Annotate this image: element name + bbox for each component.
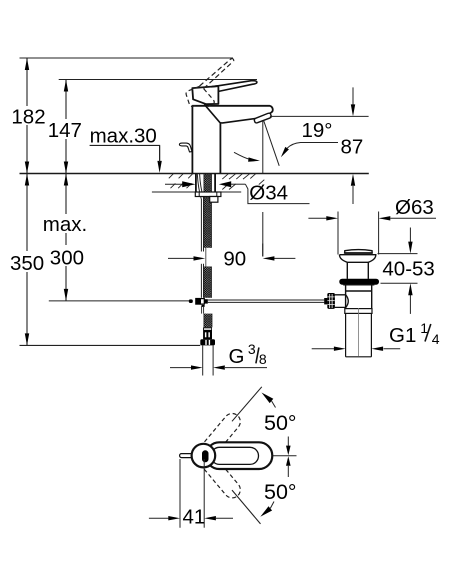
G3/8 threaded pipe xyxy=(202,345,204,375)
arrow 147 up xyxy=(64,80,68,92)
drain O-ring xyxy=(339,279,379,285)
svg-text:182: 182 xyxy=(11,106,45,129)
leader max.30 underline xyxy=(90,145,160,162)
pivot pin xyxy=(202,450,209,462)
wire: extension line top (182) xyxy=(20,57,234,59)
wire: 350 bottom extension line xyxy=(20,344,201,346)
wire: deck bottom line xyxy=(152,191,241,193)
dimension 350 line xyxy=(26,174,28,346)
dimension max300 line xyxy=(65,174,67,301)
svg-text:max.30: max.30 xyxy=(90,125,157,148)
svg-text:19°: 19° xyxy=(302,119,333,142)
arrow max300 up xyxy=(64,174,68,186)
faucet body right edge xyxy=(219,122,221,173)
drain: Ø63 extension lines xyxy=(337,212,339,255)
swivel arc arrow xyxy=(234,152,250,159)
wire: deck top line xyxy=(20,173,369,175)
knurled knob xyxy=(324,293,335,309)
label 182 xyxy=(9,106,44,125)
dashed raised handle base xyxy=(186,86,214,106)
drain body xyxy=(343,285,374,309)
dimension Ø34 leader xyxy=(165,181,310,203)
faucet body left edge xyxy=(191,105,193,173)
svg-text:Ø63: Ø63 xyxy=(395,196,434,219)
svg-text:350: 350 xyxy=(10,252,44,275)
50 upper arc arrows xyxy=(262,393,274,404)
arrow max.30 down xyxy=(157,161,161,173)
arrow 147 down xyxy=(64,162,68,174)
stream angled line 19deg xyxy=(264,121,279,166)
svg-text:87: 87 xyxy=(341,136,364,159)
arrow 182 down xyxy=(25,162,29,174)
dimension 147 line xyxy=(65,80,67,174)
crimp sleeve xyxy=(203,327,212,339)
drain flange xyxy=(339,255,375,279)
label 350 xyxy=(7,251,44,272)
dashed swung handle lower xyxy=(200,454,244,501)
svg-text:300: 300 xyxy=(50,247,84,270)
deck hatch left xyxy=(169,173,193,188)
svg-text:Ø34: Ø34 xyxy=(249,182,288,205)
dashed swung handle upper xyxy=(200,410,244,457)
faucet top / spout top edge xyxy=(192,106,273,114)
spout underside diagonal xyxy=(204,104,255,123)
top view pivot circle xyxy=(192,444,216,468)
svg-text:41: 41 xyxy=(183,506,206,529)
cross fitting on rod xyxy=(189,298,208,307)
braided hose band 3 xyxy=(204,314,212,328)
drain pop-up cap xyxy=(344,250,372,255)
dimension G3/8 xyxy=(170,341,267,370)
svg-text:50°: 50° xyxy=(264,411,297,435)
horizontal pull rod to drain xyxy=(208,299,325,301)
svg-text:147: 147 xyxy=(48,119,82,142)
dimension 87 xyxy=(341,87,364,204)
label 147 xyxy=(45,119,85,139)
handle lever blade xyxy=(212,81,257,92)
svg-text:90: 90 xyxy=(223,248,246,271)
label max. (300) xyxy=(40,214,92,233)
label 300 xyxy=(47,245,86,266)
deck hatch right xyxy=(222,174,264,190)
arrow 182 up xyxy=(25,58,29,70)
hose curved lines in shank xyxy=(197,174,201,199)
dimension G1 1/4 xyxy=(312,320,440,351)
drain centerline xyxy=(358,308,360,356)
top view outer stadium xyxy=(206,442,272,469)
handle base solid xyxy=(192,86,218,104)
dimension 90 xyxy=(168,244,295,271)
dimension Ø63 xyxy=(308,196,436,221)
wire: extension line 147 xyxy=(59,79,257,81)
shank through deck xyxy=(195,173,197,192)
drain coupling band xyxy=(345,309,372,314)
svg-text:G1: G1 xyxy=(389,324,416,347)
drain side port xyxy=(335,295,349,308)
spout height extension line xyxy=(270,115,369,117)
svg-text:max.: max. xyxy=(43,213,87,236)
50 deg lower line xyxy=(232,490,261,524)
hose edge pair xyxy=(200,199,202,252)
drain tailpipe xyxy=(346,313,372,356)
svg-text:8: 8 xyxy=(259,351,267,367)
arrow 350 up xyxy=(25,174,29,186)
svg-text:4: 4 xyxy=(432,331,440,347)
dashed raised lever xyxy=(200,59,234,89)
50 deg upper line xyxy=(232,387,262,422)
aerator xyxy=(254,113,271,123)
rod below fitting xyxy=(201,306,203,314)
wire: max300 extension line / pull rod left xyxy=(49,300,189,302)
top view rod xyxy=(180,454,193,458)
svg-text:3: 3 xyxy=(248,341,256,357)
50 lower arc arrows xyxy=(260,506,272,517)
dimension 40-53 xyxy=(382,228,434,314)
top view inner stadium xyxy=(211,447,259,464)
svg-text:50°: 50° xyxy=(264,480,297,504)
label 19deg leader xyxy=(287,143,338,149)
stream vertical extension line xyxy=(262,121,264,174)
pop-up lever hook xyxy=(179,143,192,152)
braided hose lower band xyxy=(201,264,211,298)
arrow max300 down xyxy=(64,289,68,301)
arrow 350 down xyxy=(25,333,29,345)
dimension 41 xyxy=(149,459,233,529)
pop-up rod in gap xyxy=(205,248,207,267)
dimension 182 line xyxy=(26,58,28,174)
mounting washer nut xyxy=(195,192,221,197)
hex fitting xyxy=(210,197,218,203)
top view centerline right xyxy=(273,455,297,457)
braided hose upper band xyxy=(204,174,211,248)
svg-text:40-53: 40-53 xyxy=(382,258,434,281)
svg-text:G: G xyxy=(229,345,245,368)
G3/8 nut xyxy=(200,339,215,345)
40-53 extension lines xyxy=(378,253,418,255)
